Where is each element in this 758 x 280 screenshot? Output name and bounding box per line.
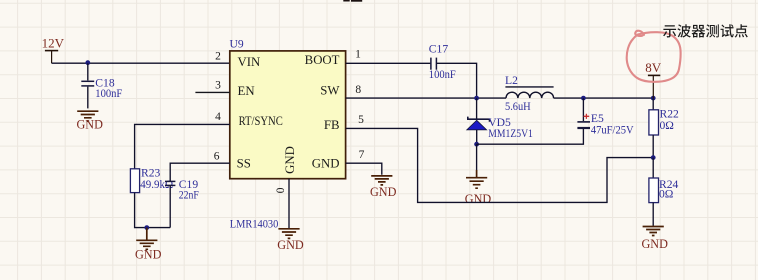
svg-text:RT/SYNC: RT/SYNC — [239, 114, 283, 128]
svg-text:0Ω: 0Ω — [659, 188, 674, 201]
wire L2 to 8V node — [554, 97, 654, 99]
svg-text:GND: GND — [277, 238, 304, 252]
svg-text:SS: SS — [237, 156, 251, 170]
svg-text:GND: GND — [642, 237, 669, 251]
clipped title text at top edge — [343, 0, 362, 2]
svg-text:GND: GND — [370, 185, 397, 199]
svg-text:100nF: 100nF — [429, 68, 456, 81]
power port 12V bar symbol — [45, 51, 58, 64]
ground below VD5 — [476, 170, 478, 177]
pin EN stub — [195, 91, 229, 93]
junction FB divider — [651, 155, 656, 160]
svg-text:3: 3 — [215, 79, 221, 91]
svg-text:GND: GND — [283, 146, 297, 174]
svg-text:MM1Z5V1: MM1Z5V1 — [488, 127, 533, 140]
svg-text:VIN: VIN — [238, 55, 261, 69]
junction at C18 — [85, 60, 90, 65]
svg-text:22nF: 22nF — [179, 188, 199, 201]
diode VD5 zener — [467, 98, 490, 144]
IC bottom gnd pin wire — [288, 179, 290, 229]
capacitor C19 — [165, 181, 175, 227]
svg-text:2: 2 — [215, 50, 221, 62]
wire GND pin7 — [346, 163, 382, 175]
svg-text:LMR14030: LMR14030 — [230, 218, 279, 231]
resistor R24 — [649, 158, 659, 226]
wire SS to C19 — [170, 163, 230, 181]
svg-text:8V: 8V — [645, 60, 662, 75]
svg-text:6: 6 — [214, 151, 220, 163]
svg-text:0: 0 — [275, 187, 287, 193]
ground below R24 — [643, 227, 664, 236]
svg-text:1: 1 — [355, 49, 361, 61]
polarity plus sign (E5) — [584, 114, 590, 119]
svg-text:47uF/25V: 47uF/25V — [591, 123, 634, 136]
junction VD5 anode — [474, 142, 479, 147]
svg-text:EN: EN — [238, 84, 255, 98]
junction 8V — [651, 96, 656, 101]
junction SW/C17/VD5 — [474, 96, 479, 101]
wire FB net — [346, 128, 654, 202]
IC U9 body — [230, 51, 346, 179]
capacitor C18 — [81, 63, 94, 108]
annotation red sketch circle — [627, 32, 681, 82]
ground below R23 — [146, 228, 148, 240]
power port 8V bar symbol — [648, 75, 660, 98]
wire R23 bottom — [135, 193, 171, 228]
wire 12V to VIN — [52, 62, 230, 64]
svg-text:0Ω: 0Ω — [660, 119, 675, 132]
svg-text:49.9kΩ: 49.9kΩ — [140, 178, 173, 191]
resistor R23 — [130, 169, 139, 193]
wire VD5 anode down — [476, 144, 478, 170]
capacitor E5 electrolytic — [577, 98, 590, 128]
svg-text:5.6uH: 5.6uH — [505, 100, 531, 113]
svg-text:FB: FB — [324, 118, 340, 132]
capacitor C17 — [431, 58, 437, 70]
svg-text:4: 4 — [215, 111, 221, 123]
svg-text:C17: C17 — [429, 42, 449, 55]
wire BOOT to C17 — [346, 62, 431, 64]
ground below C18 — [77, 111, 98, 121]
wire VD5 to E5 minus — [477, 129, 584, 144]
svg-text:SW: SW — [320, 84, 340, 98]
svg-text:GND: GND — [135, 247, 162, 261]
inductor L2 — [505, 87, 553, 98]
junction E5 — [581, 96, 586, 101]
annotation CJK text oscilloscope test point — [663, 24, 748, 37]
wire RT/SYNC to R23 — [135, 124, 230, 168]
svg-text:GND: GND — [77, 118, 104, 132]
svg-text:GND: GND — [465, 192, 492, 206]
ground pin7 — [371, 176, 392, 185]
svg-text:5: 5 — [358, 114, 364, 126]
ground IC pin0 — [278, 229, 299, 239]
svg-text:L2: L2 — [505, 74, 518, 87]
svg-text:12V: 12V — [42, 36, 65, 51]
wire SW rail — [346, 97, 506, 99]
svg-text:GND: GND — [312, 156, 340, 170]
svg-text:BOOT: BOOT — [305, 53, 340, 67]
resistor R22 — [649, 98, 659, 158]
svg-text:U9: U9 — [230, 38, 244, 51]
svg-text:8: 8 — [355, 84, 361, 96]
svg-text:100nF: 100nF — [95, 87, 122, 100]
svg-text:7: 7 — [359, 149, 365, 161]
wire C17 to SW node — [436, 63, 476, 98]
junction R23/C19/GND — [144, 225, 149, 230]
